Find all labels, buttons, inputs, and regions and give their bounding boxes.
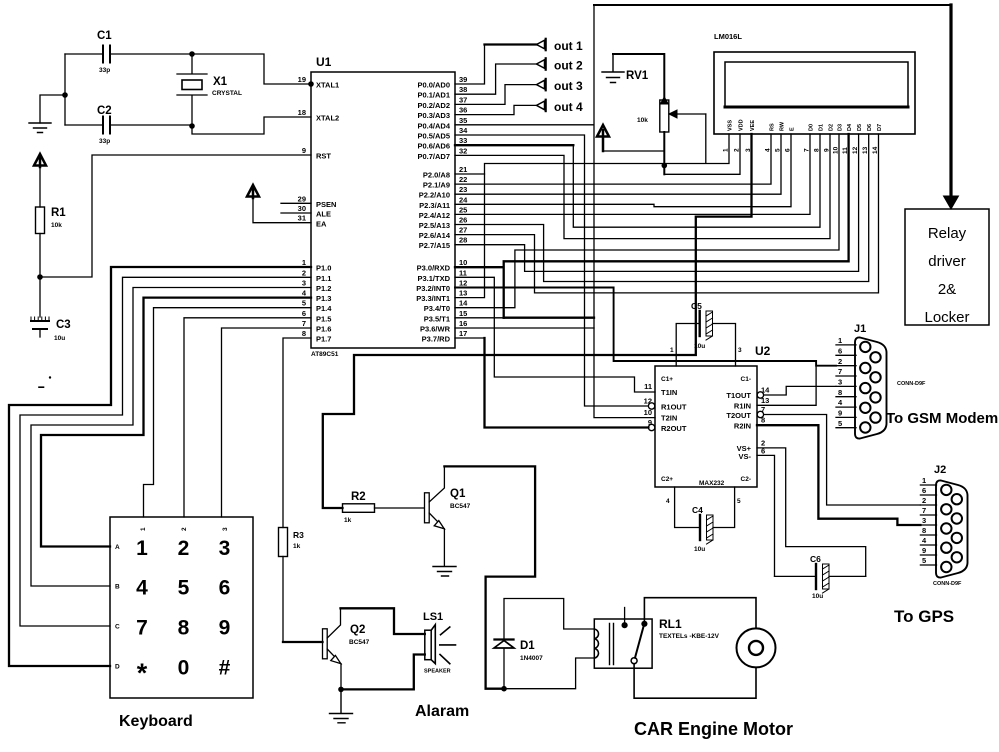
svg-text:C2+: C2+ <box>661 476 673 483</box>
svg-text:23: 23 <box>459 185 467 194</box>
svg-text:T1IN: T1IN <box>661 388 677 397</box>
IC U1 AT89C51 body <box>311 55 455 358</box>
svg-text:35: 35 <box>459 116 467 125</box>
wire P3.4 to LCD D3 <box>455 134 839 308</box>
svg-text:B: B <box>115 584 120 591</box>
svg-text:CAR Engine Motor: CAR Engine Motor <box>634 719 793 739</box>
svg-text:10u: 10u <box>694 546 705 553</box>
wire emitter junction to speaker bottom <box>341 655 425 690</box>
svg-text:P0.7/AD7: P0.7/AD7 <box>417 152 450 161</box>
svg-text:R2IN: R2IN <box>734 422 751 431</box>
svg-text:P3.7/RD: P3.7/RD <box>422 335 451 344</box>
svg-text:J2: J2 <box>934 464 946 476</box>
wiper arrow of RV1 <box>669 110 677 118</box>
node RV1 bottom <box>662 163 668 169</box>
svg-text:C6: C6 <box>810 554 821 564</box>
svg-text:8: 8 <box>838 388 842 397</box>
svg-text:X1: X1 <box>213 76 228 88</box>
svg-text:1k: 1k <box>293 543 301 550</box>
svg-text:7: 7 <box>302 319 306 328</box>
svg-text:13: 13 <box>862 146 869 154</box>
svg-text:7: 7 <box>136 617 148 640</box>
svg-text:AT89C51: AT89C51 <box>311 351 339 358</box>
wire left vertical C1-C2 <box>40 54 65 125</box>
svg-text:5: 5 <box>302 299 306 308</box>
svg-text:22: 22 <box>459 175 467 184</box>
svg-text:XTAL1: XTAL1 <box>316 81 339 90</box>
wire P0.1 to out 2 <box>455 58 583 94</box>
svg-text:TEXTELs -KBE-12V: TEXTELs -KBE-12V <box>659 633 720 640</box>
svg-text:CRYSTAL: CRYSTAL <box>212 90 242 97</box>
capacitor C5 10u <box>676 301 735 366</box>
svg-text:P2.2/A10: P2.2/A10 <box>419 191 450 200</box>
svg-text:2: 2 <box>302 268 306 277</box>
capacitor C1 <box>65 30 192 74</box>
svg-text:P1.4: P1.4 <box>316 304 332 313</box>
svg-text:*: * <box>137 658 148 688</box>
crystal X1 <box>177 54 242 126</box>
svg-text:D0: D0 <box>809 124 815 131</box>
svg-text:2: 2 <box>838 357 842 366</box>
U1 left pin numbers <box>298 75 307 338</box>
svg-text:37: 37 <box>459 95 467 104</box>
svg-text:out 3: out 3 <box>554 79 583 93</box>
svg-text:21: 21 <box>459 165 467 174</box>
svg-text:P2.3/A11: P2.3/A11 <box>419 201 450 210</box>
node crystal top <box>189 51 195 57</box>
LCD pin numbers rotated <box>723 146 880 154</box>
svg-text:5: 5 <box>922 556 926 565</box>
svg-text:9: 9 <box>302 146 306 155</box>
svg-text:C1-: C1- <box>741 376 751 383</box>
svg-text:P1.1: P1.1 <box>316 274 331 283</box>
svg-text:VS-: VS- <box>738 452 751 461</box>
J2 pin stubs and numbers <box>920 476 936 565</box>
svg-text:0: 0 <box>178 657 190 680</box>
svg-text:LM016L: LM016L <box>714 32 742 41</box>
svg-text:1: 1 <box>136 537 148 560</box>
svg-text:P2.1/A9: P2.1/A9 <box>423 181 450 190</box>
svg-text:BC547: BC547 <box>349 639 370 646</box>
wire P3.1 to T1IN <box>455 277 655 392</box>
svg-text:D1: D1 <box>520 640 535 652</box>
power arrow EA <box>247 185 259 198</box>
resistor R1 10k <box>36 167 67 277</box>
svg-text:RST: RST <box>316 152 331 161</box>
LCD LM016L box <box>714 32 915 134</box>
svg-text:31: 31 <box>298 214 306 223</box>
svg-text:9: 9 <box>922 546 926 555</box>
svg-text:SPEAKER: SPEAKER <box>424 669 451 675</box>
wire P1.6 to keyboard column 3 <box>222 328 312 517</box>
svg-text:driver: driver <box>928 253 966 270</box>
wire relay blade to motor top <box>644 598 756 629</box>
svg-text:10: 10 <box>459 258 467 267</box>
wire relay contact to motor bottom <box>634 664 756 699</box>
J1 pin stubs and numbers <box>836 336 856 428</box>
ground below Q2 <box>330 689 353 722</box>
svg-text:12: 12 <box>459 279 467 288</box>
svg-text:D3: D3 <box>838 124 844 131</box>
svg-text:U2: U2 <box>755 344 771 358</box>
wire P0.4 / T2IN / relay-driver vertical <box>455 5 655 418</box>
svg-text:P2.0/A8: P2.0/A8 <box>423 171 450 180</box>
svg-text:C3: C3 <box>56 319 71 331</box>
svg-text:To GPS: To GPS <box>894 607 954 626</box>
potentiometer RV1 10k <box>613 54 669 174</box>
wire XTAL2 net <box>192 117 311 134</box>
wire P0.5 to R1OUT <box>455 135 648 406</box>
box Relay driver 2& Locker <box>905 209 989 326</box>
wire P3.2 to J1 pin 2 <box>455 288 836 366</box>
svg-text:11: 11 <box>459 268 467 277</box>
connector J1 CONN-D9F <box>854 323 926 439</box>
wire P2.3 to LCD E <box>455 134 791 207</box>
svg-text:P0.6/AD6: P0.6/AD6 <box>417 142 450 151</box>
wire P2.1 to LCD RS <box>455 134 771 184</box>
wire P0.2 to out 3 <box>455 79 583 105</box>
svg-text:8: 8 <box>922 526 926 535</box>
svg-text:27: 27 <box>459 226 467 235</box>
svg-text:1N4007: 1N4007 <box>520 655 543 662</box>
svg-text:C1: C1 <box>97 30 112 42</box>
svg-text:A: A <box>115 544 120 551</box>
svg-text:3: 3 <box>302 279 306 288</box>
svg-text:D6: D6 <box>867 124 873 131</box>
svg-text:P2.7/A15: P2.7/A15 <box>419 241 450 250</box>
svg-text:7: 7 <box>838 367 842 376</box>
wire P3.6 to T2IN line <box>455 327 594 329</box>
svg-text:RV1: RV1 <box>626 70 649 82</box>
svg-text:2: 2 <box>922 496 926 505</box>
node D1 junction <box>501 686 507 692</box>
svg-text:P0.1/AD1: P0.1/AD1 <box>417 91 450 100</box>
svg-text:RL1: RL1 <box>659 617 682 631</box>
wire T2OUT to J2 pin 2 <box>764 415 921 506</box>
svg-text:2: 2 <box>181 527 188 531</box>
svg-text:P2.5/A13: P2.5/A13 <box>419 221 450 230</box>
U2 pin numbers <box>644 382 652 427</box>
svg-text:RS: RS <box>770 123 776 131</box>
svg-text:P3.6/WR: P3.6/WR <box>420 325 451 334</box>
connector J2 CONN-D9F <box>933 464 968 587</box>
svg-text:29: 29 <box>298 195 306 204</box>
svg-text:R3: R3 <box>293 530 304 540</box>
svg-text:P1.6: P1.6 <box>316 325 331 334</box>
svg-text:Q1: Q1 <box>450 488 466 500</box>
wire P2.5 to LCD D6 <box>455 134 869 282</box>
svg-text:R1OUT: R1OUT <box>661 403 687 412</box>
svg-text:P3.4/T0: P3.4/T0 <box>424 304 450 313</box>
svg-text:25: 25 <box>459 205 467 214</box>
svg-text:6: 6 <box>838 346 842 355</box>
wire XTAL1 net <box>192 54 311 84</box>
svg-text:18: 18 <box>298 108 306 117</box>
svg-text:12: 12 <box>644 397 652 406</box>
svg-text:16: 16 <box>459 319 467 328</box>
wire P0.0 to out 1 <box>455 39 583 84</box>
svg-text:1: 1 <box>140 527 147 531</box>
svg-text:Locker: Locker <box>924 309 969 326</box>
wire P2.2 to LCD RW <box>455 134 781 194</box>
wire P0.3 to out 4 <box>455 100 583 115</box>
svg-text:30: 30 <box>298 204 306 213</box>
svg-text:EA: EA <box>316 220 327 229</box>
svg-text:P3.3/INT1: P3.3/INT1 <box>416 294 450 303</box>
svg-text:T1OUT: T1OUT <box>726 391 751 400</box>
wire RST net <box>40 155 311 277</box>
svg-text:P0.3/AD3: P0.3/AD3 <box>417 111 450 120</box>
svg-text:33: 33 <box>459 136 467 145</box>
wire R2 to Q1 base <box>375 507 425 509</box>
svg-text:2&: 2& <box>938 281 956 298</box>
svg-text:3: 3 <box>745 148 752 152</box>
wire VEE thick net: LCD pin3 to R2 <box>323 134 752 508</box>
svg-text:4: 4 <box>136 577 148 600</box>
wire Q2 collector to speaker top <box>341 608 425 634</box>
svg-text:VSS: VSS <box>728 120 734 131</box>
svg-text:P0.4/AD4: P0.4/AD4 <box>417 121 450 130</box>
speaker LS1 <box>423 611 456 675</box>
svg-text:R2OUT: R2OUT <box>661 424 687 433</box>
svg-text:32: 32 <box>459 146 467 155</box>
wire P1.7 to R3 <box>283 338 311 528</box>
wire P3.0 to LCD D4 (thick) <box>455 134 849 318</box>
node R1 bottom junction <box>37 274 43 280</box>
wire P0.7 to LCD D2 <box>455 134 830 239</box>
wire power to RV1 bottom <box>603 150 664 152</box>
capacitor C2 <box>65 105 192 145</box>
node crystal bottom <box>189 123 195 129</box>
diode D1 1N4007 <box>494 599 594 689</box>
svg-text:Alaram: Alaram <box>415 703 469 720</box>
svg-text:#: # <box>219 657 231 680</box>
svg-text:7: 7 <box>922 506 926 515</box>
node Q2 emitter junction <box>338 687 344 693</box>
svg-text:1: 1 <box>723 148 730 152</box>
svg-text:4: 4 <box>666 498 670 505</box>
svg-text:C: C <box>115 624 120 631</box>
svg-text:C5: C5 <box>691 301 702 311</box>
svg-text:E: E <box>790 127 796 131</box>
svg-text:R2: R2 <box>351 491 366 503</box>
svg-text:P1.7: P1.7 <box>316 335 331 344</box>
wire P2.0 joins VSS line <box>455 173 485 175</box>
IC U2 MAX232 body <box>655 344 771 487</box>
svg-text:10u: 10u <box>54 335 65 342</box>
svg-text:3: 3 <box>838 378 842 387</box>
wire EA net <box>253 198 311 223</box>
svg-text:D2: D2 <box>829 124 835 131</box>
transistor Q1 BC547 <box>425 466 471 566</box>
wire PSEN stub <box>281 202 311 204</box>
ground for RV1 <box>602 54 624 83</box>
svg-text:5: 5 <box>178 577 190 600</box>
capacitor C4 10u <box>675 487 735 553</box>
svg-text:10u: 10u <box>812 593 823 600</box>
svg-text:3: 3 <box>738 347 742 354</box>
wire R2IN to J2 pin 3 <box>757 425 920 525</box>
svg-text:C2-: C2- <box>741 476 751 483</box>
svg-text:Q2: Q2 <box>350 624 365 636</box>
svg-text:11: 11 <box>644 382 652 391</box>
svg-text:P1.5: P1.5 <box>316 314 331 323</box>
U1 left pin names <box>316 81 339 344</box>
svg-text:10u: 10u <box>694 343 705 350</box>
svg-text:BC547: BC547 <box>450 503 471 510</box>
svg-text:9: 9 <box>838 409 842 418</box>
svg-text:C2: C2 <box>97 105 112 117</box>
transistor Q2 BC547 <box>283 608 370 689</box>
svg-text:36: 36 <box>459 106 467 115</box>
capacitor C6 10u <box>775 554 866 600</box>
svg-text:8: 8 <box>302 329 306 338</box>
svg-text:P1.2: P1.2 <box>316 284 331 293</box>
svg-text:33p: 33p <box>99 67 110 74</box>
svg-text:38: 38 <box>459 85 467 94</box>
svg-text:T2OUT: T2OUT <box>726 411 751 420</box>
svg-text:8: 8 <box>178 617 190 640</box>
wire ALE stub <box>281 212 311 214</box>
U1 right pin names <box>416 81 451 344</box>
wire P3.5 stub <box>455 317 503 319</box>
svg-text:P1.3: P1.3 <box>316 294 331 303</box>
node C1-C2 ground tap <box>62 92 68 98</box>
svg-text:6: 6 <box>922 486 926 495</box>
svg-text:U1: U1 <box>316 55 332 69</box>
svg-text:Relay: Relay <box>928 225 967 242</box>
svg-text:D5: D5 <box>857 124 863 131</box>
svg-text:9: 9 <box>219 617 231 640</box>
svg-text:C4: C4 <box>692 505 703 515</box>
thick arrow into relay driver <box>944 5 959 209</box>
wire P1.3 to keyboard row A <box>41 298 311 547</box>
svg-text:10k: 10k <box>51 222 62 229</box>
svg-text:VDD: VDD <box>739 119 745 131</box>
svg-text:3: 3 <box>222 527 229 531</box>
wire P1.2 to keyboard row B <box>31 288 311 587</box>
svg-text:P3.0/RXD: P3.0/RXD <box>417 264 451 273</box>
svg-text:D7: D7 <box>877 124 883 131</box>
svg-text:P3.1/TXD: P3.1/TXD <box>417 274 450 283</box>
svg-text:P2.4/A12: P2.4/A12 <box>419 211 450 220</box>
wire P1.1 to keyboard row C <box>20 277 311 626</box>
keyboard box <box>110 517 253 730</box>
svg-text:6: 6 <box>219 577 231 600</box>
wire Q1 collector to D1 junction (thick) <box>444 466 535 688</box>
svg-text:To GSM Modem: To GSM Modem <box>886 410 998 427</box>
svg-text:RW: RW <box>780 121 786 131</box>
svg-text:CONN-D9F: CONN-D9F <box>897 381 926 387</box>
svg-text:2: 2 <box>734 148 741 152</box>
svg-text:1k: 1k <box>344 517 352 524</box>
wire T1OUT to J1 pin 3 <box>764 386 836 395</box>
wire P2.7 to LCD D5 <box>455 134 859 271</box>
wire VS- to C6 left <box>757 455 775 576</box>
wire VDD net to LCD pin 2 <box>664 134 740 174</box>
ground below Q1 <box>433 567 456 577</box>
wire P0.6 to LCD D1 <box>455 134 820 227</box>
wire P2.4 to LCD D0 <box>455 134 810 214</box>
svg-text:10k: 10k <box>637 117 648 124</box>
svg-text:17: 17 <box>459 329 467 338</box>
svg-text:P3.2/INT0: P3.2/INT0 <box>416 284 450 293</box>
svg-text:PSEN: PSEN <box>316 200 336 209</box>
svg-text:out 4: out 4 <box>554 100 583 114</box>
svg-text:D: D <box>115 664 120 671</box>
svg-text:ALE: ALE <box>316 210 331 219</box>
ground near crystal <box>29 123 51 133</box>
svg-text:34: 34 <box>459 126 468 135</box>
svg-text:6: 6 <box>302 309 306 318</box>
svg-text:39: 39 <box>459 75 467 84</box>
svg-text:CONN-D9F: CONN-D9F <box>933 581 962 587</box>
svg-text:13: 13 <box>459 289 467 298</box>
wire P1.5 to keyboard column 2 <box>184 318 311 517</box>
wire P3.7 to R2OUT <box>455 338 648 428</box>
inversion bubbles on U2 pins <box>648 403 654 409</box>
svg-text:5: 5 <box>737 498 741 505</box>
svg-text:R1: R1 <box>51 207 66 219</box>
motor (CAR engine) <box>737 628 776 667</box>
svg-text:P1.0: P1.0 <box>316 264 331 273</box>
svg-text:1: 1 <box>670 347 674 354</box>
wire P2.6 to LCD D7 <box>455 134 879 293</box>
svg-text:24: 24 <box>459 195 468 204</box>
U1 right pin numbers <box>459 75 468 338</box>
svg-text:P3.5/T1: P3.5/T1 <box>424 314 450 323</box>
wire P1.4 to keyboard column 1 <box>144 308 312 517</box>
svg-text:Keyboard: Keyboard <box>119 713 193 730</box>
svg-text:D4: D4 <box>847 123 853 131</box>
svg-text:out 2: out 2 <box>554 59 583 73</box>
svg-text:J1: J1 <box>854 323 866 335</box>
svg-text:P0.5/AD5: P0.5/AD5 <box>417 132 450 141</box>
svg-text:26: 26 <box>459 216 467 225</box>
wire VSS net: wiper, P3.3, LCD pin1 <box>455 114 729 298</box>
wire P1.0 to keyboard row D <box>9 267 311 666</box>
svg-text:T2IN: T2IN <box>661 414 677 423</box>
svg-text:3: 3 <box>219 537 231 560</box>
svg-text:28: 28 <box>459 236 467 245</box>
svg-text:XTAL2: XTAL2 <box>316 114 339 123</box>
svg-text:C1+: C1+ <box>661 376 673 383</box>
power arrow VDD <box>597 125 609 151</box>
svg-text:VEE: VEE <box>750 120 756 131</box>
svg-text:P2.6/A14: P2.6/A14 <box>419 231 451 240</box>
svg-text:1: 1 <box>302 258 306 267</box>
power arrow VCC for R1 <box>34 154 46 167</box>
svg-text:3: 3 <box>922 516 926 525</box>
svg-text:LS1: LS1 <box>423 611 443 623</box>
svg-text:33p: 33p <box>99 138 110 145</box>
wire top bus to relay driver <box>594 4 951 6</box>
svg-text:2: 2 <box>178 537 190 560</box>
svg-text:5: 5 <box>838 419 842 428</box>
resistor R2 1k <box>343 491 375 524</box>
svg-text:1: 1 <box>838 336 842 345</box>
svg-text:15: 15 <box>459 309 467 318</box>
svg-text:P0.0/AD0: P0.0/AD0 <box>417 81 450 90</box>
wire thick branch to T2IN column <box>504 317 594 319</box>
relay RL1 <box>594 608 719 669</box>
svg-text:D1: D1 <box>819 124 825 131</box>
svg-text:R1IN: R1IN <box>734 402 751 411</box>
svg-text:14: 14 <box>459 299 468 308</box>
svg-text:19: 19 <box>298 75 306 84</box>
node XTAL1 pin <box>308 81 314 87</box>
svg-text:1: 1 <box>922 476 926 485</box>
